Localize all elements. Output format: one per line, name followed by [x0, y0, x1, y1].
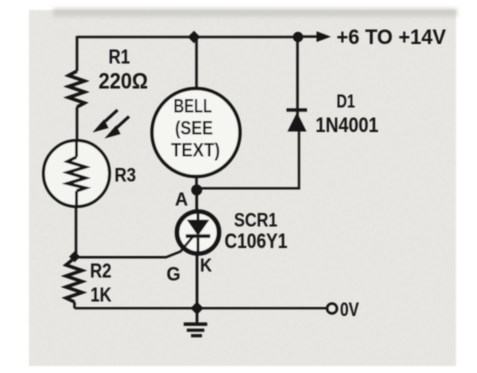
- svg-text:R1: R1: [109, 46, 131, 69]
- svg-text:SCR1: SCR1: [234, 211, 278, 232]
- wire bell branch: [195, 37, 198, 90]
- node gate junction: [69, 251, 80, 262]
- wire left vertical (top rail to R1): [76, 36, 79, 71]
- resistor R2: [66, 258, 82, 302]
- bell (see text): [152, 89, 240, 177]
- wire R1 to R3: [76, 107, 79, 141]
- supply arrow: [303, 35, 318, 38]
- svg-text:D1: D1: [337, 91, 356, 112]
- wire bottom rail: [75, 307, 327, 309]
- svg-text:TEXT): TEXT): [171, 141, 220, 162]
- light arrow 1: [101, 110, 118, 125]
- svg-text:R2: R2: [90, 261, 112, 283]
- svg-text:C106Y1: C106Y1: [225, 230, 288, 253]
- terminal 0V: [327, 304, 337, 314]
- wire bell to anode junction: [195, 177, 198, 191]
- svg-text:220Ω: 220Ω: [99, 69, 149, 94]
- wire anode junction to D1 branch: [197, 130, 299, 188]
- ground: [184, 308, 208, 337]
- svg-text:A: A: [175, 189, 188, 210]
- node anode junction A: [191, 185, 202, 196]
- light arrow 2: [113, 117, 129, 132]
- wire anode junction to SCR: [195, 190, 198, 212]
- svg-text:0V: 0V: [340, 299, 359, 321]
- thyristor SCR1 C106Y1: [75, 212, 219, 258]
- diode D1: [287, 37, 308, 132]
- wire R3 to gate junction: [75, 207, 78, 259]
- svg-text:R3: R3: [115, 166, 137, 187]
- wire top rail: [77, 36, 298, 39]
- svg-text:K: K: [200, 255, 213, 276]
- svg-text:+6 TO +14V: +6 TO +14V: [337, 25, 447, 49]
- resistor R1: [69, 71, 85, 107]
- photoresistor R3: [44, 110, 130, 207]
- scan edge shadow band: [53, 9, 457, 17]
- svg-text:(SEE: (SEE: [175, 119, 213, 140]
- svg-text:G: G: [167, 264, 181, 286]
- node bell branch on top rail: [188, 31, 200, 43]
- svg-text:BELL: BELL: [174, 97, 213, 118]
- node D1 top junction: [293, 32, 303, 42]
- svg-text:1K: 1K: [91, 285, 112, 307]
- wire SCR cathode to bottom rail: [196, 253, 199, 308]
- node bottom rail junction: [191, 302, 204, 315]
- svg-text:1N4001: 1N4001: [316, 114, 379, 137]
- wire R2 to bottom rail: [73, 302, 76, 308]
- gate lead: [75, 237, 193, 258]
